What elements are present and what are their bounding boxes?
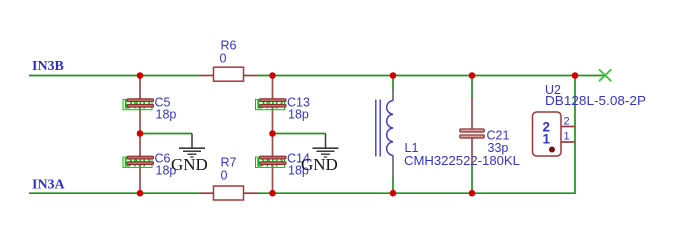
svg-text:R6: R6 (221, 39, 237, 53)
junction bottom at C14 branch (269, 190, 276, 197)
svg-text:GND: GND (301, 155, 338, 174)
resistor R7 (200, 186, 258, 200)
capacitor C13 (272, 76, 274, 134)
wire gnd stub middle (273, 133, 326, 135)
svg-text:2: 2 (564, 116, 570, 128)
svg-text:L1: L1 (405, 141, 419, 155)
DNP marker of C14 (256, 155, 285, 169)
wire net IN3B top left segment (29, 75, 200, 77)
DNP marker of C13 (256, 98, 285, 112)
no-connect X (599, 69, 611, 81)
wire C21 bottom pin link (471, 163, 473, 193)
svg-text:IN3B: IN3B (32, 59, 64, 74)
plates of C13 (260, 99, 287, 107)
wire net IN3A bottom left segment (29, 192, 200, 194)
junction bottom at C6 branch (137, 190, 144, 197)
DNP marker of C5 (123, 98, 152, 112)
svg-text:1: 1 (543, 132, 551, 147)
svg-text:1: 1 (564, 131, 570, 143)
svg-text:DB128L-5.08-2P: DB128L-5.08-2P (545, 94, 646, 108)
svg-text:18p: 18p (156, 108, 177, 122)
svg-text:33p: 33p (488, 141, 509, 155)
junction top at L1 branch (390, 72, 397, 79)
svg-text:R7: R7 (221, 156, 237, 170)
junction bottom at L1 branch (390, 190, 397, 197)
junction top at C5 branch (137, 72, 144, 79)
capacitor C6 (139, 134, 141, 194)
svg-text:0: 0 (221, 169, 228, 183)
DNP marker of C6 (123, 155, 152, 169)
inductor L1 (376, 76, 393, 194)
junction mid at C5-C6 (137, 130, 144, 137)
wire C21 top pin link (471, 76, 473, 99)
capacitor C21 (460, 97, 485, 164)
wire net IN3B top right segment (257, 75, 606, 77)
capacitor C5 (139, 76, 141, 134)
junction bottom at C21 branch (469, 190, 476, 197)
plates of C6 (127, 156, 154, 164)
ground symbol GND middle (313, 134, 339, 158)
junction top at connector branch (572, 72, 579, 79)
plates of C14 (260, 156, 287, 164)
svg-text:18p: 18p (288, 108, 309, 122)
wire right vertical to connector (574, 76, 576, 195)
wire net IN3A bottom right segment (257, 192, 576, 194)
capacitor C14 (272, 134, 274, 194)
junction top at C13 branch (269, 72, 276, 79)
junction top at C21 branch (469, 72, 476, 79)
svg-text:IN3A: IN3A (32, 178, 66, 193)
resistor R6 (200, 67, 258, 81)
connector U2 (533, 112, 576, 156)
plates of C5 (127, 99, 154, 107)
junction mid at C13-C14 (269, 130, 276, 137)
ground symbol GND left (179, 134, 205, 158)
svg-text:CMH322522-180KL: CMH322522-180KL (404, 154, 520, 168)
svg-text:GND: GND (171, 155, 208, 174)
wire gnd stub left (140, 133, 192, 135)
svg-text:0: 0 (220, 52, 227, 66)
